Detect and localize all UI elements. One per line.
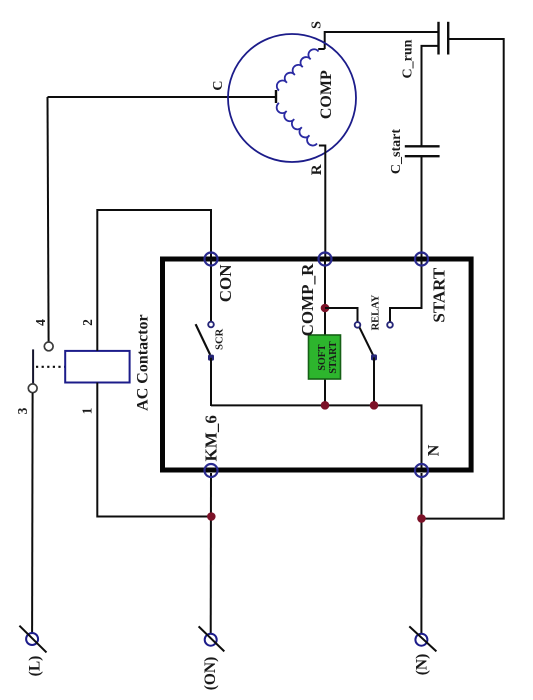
wire: top-left horizontal to motor C	[48, 96, 276, 98]
motor common T bar	[275, 90, 277, 103]
svg-text:AC Contactor: AC Contactor	[135, 314, 152, 410]
svg-text:CON: CON	[216, 264, 235, 303]
svg-text:R: R	[309, 164, 325, 175]
wire: C_run right plate to right rail corner	[422, 39, 504, 519]
svg-text:4: 4	[33, 319, 48, 326]
wire: contact 3 down to (L)	[31, 393, 34, 633]
SCR branch: CON terminal down to upper contact	[210, 259, 212, 322]
contactor blade (3)	[32, 349, 34, 383]
relay right branch	[390, 259, 422, 322]
AC contactor contact 4 circle	[44, 342, 53, 351]
SCR upper contact	[208, 322, 214, 328]
svg-text:(N): (N)	[414, 654, 431, 676]
motor circle COMP	[228, 34, 356, 162]
relay left branch	[325, 308, 358, 322]
svg-text:C_start: C_start	[389, 129, 404, 174]
capacitor C_start	[405, 145, 440, 147]
svg-text:COMP_R: COMP_R	[298, 263, 317, 336]
SCR lower contact	[208, 355, 214, 361]
dashed linkage	[36, 366, 65, 368]
junction dot N	[417, 514, 426, 523]
wire: coil bottom (1) down and over to ON line	[97, 383, 211, 517]
svg-text:C_run: C_run	[401, 39, 416, 78]
terminal (ON)	[205, 634, 217, 646]
svg-text:SOFT: SOFT	[317, 344, 328, 370]
svg-text:START: START	[328, 341, 339, 374]
relay right contact	[387, 322, 393, 328]
svg-text:N: N	[426, 444, 443, 456]
svg-text:START: START	[430, 267, 449, 322]
svg-text:3: 3	[15, 407, 30, 414]
AC contactor coil rectangle	[65, 351, 129, 383]
winding lower (C to R)	[277, 103, 317, 146]
wire: C_run left plate to C_start top plate	[422, 46, 439, 146]
wire: left vertical down to contact 4	[48, 97, 49, 342]
svg-text:KM_6: KM_6	[202, 415, 221, 461]
wire: N terminal down to (N)	[420, 473, 422, 634]
control box	[163, 259, 472, 470]
bottom rail inside box	[211, 405, 422, 468]
relay pivot	[371, 354, 377, 360]
terminal START	[415, 253, 428, 266]
relay arm	[360, 328, 374, 356]
terminal (N)	[415, 634, 427, 646]
terminal (ON) slash	[199, 626, 225, 651]
wire: SCR down to bottom rail	[210, 358, 212, 406]
wire: S terminal to C_run left plate (top horizontal)	[325, 32, 439, 49]
svg-text:(L): (L)	[27, 656, 44, 677]
junction dot COMP_R rail	[321, 401, 330, 410]
svg-text:1: 1	[80, 407, 95, 414]
svg-text:RELAY: RELAY	[371, 294, 382, 330]
svg-text:COMP: COMP	[318, 70, 335, 119]
wire: KM_6 terminal down to (ON)	[210, 473, 212, 634]
terminal CON	[205, 253, 218, 266]
svg-text:C: C	[211, 80, 226, 90]
contactor contact 3 circle	[28, 384, 37, 393]
terminal N	[415, 464, 428, 477]
svg-text:2: 2	[80, 319, 95, 326]
wire: R notch tick and wire down to COMP_R terminal	[319, 146, 325, 260]
junction dot ON	[207, 512, 216, 521]
terminal COMP_R	[319, 253, 332, 266]
junction dot relay rail	[370, 401, 379, 410]
wire: S notch tick	[318, 48, 325, 50]
COMP_R branch vertical	[324, 259, 326, 405]
capacitor C_run	[437, 22, 439, 55]
svg-text:SCR: SCR	[215, 328, 226, 349]
relay left contact	[355, 322, 361, 328]
soft start green box	[309, 335, 341, 379]
terminal (N) slash	[409, 626, 436, 651]
svg-text:S: S	[310, 21, 325, 29]
terminal (L) slash	[19, 626, 46, 653]
terminal (L)	[26, 633, 38, 645]
svg-text:(ON): (ON)	[202, 657, 219, 691]
winding upper (C to S)	[277, 49, 319, 90]
SCR arm	[196, 324, 211, 355]
junction dot COMP_R upper	[321, 304, 330, 313]
wire: C_start bottom plate to START terminal	[421, 156, 423, 259]
terminal KM_6	[205, 464, 218, 477]
wire: relay pivot to rail	[373, 357, 375, 406]
wire: coil top (2) up and over to CON terminal	[97, 210, 211, 351]
